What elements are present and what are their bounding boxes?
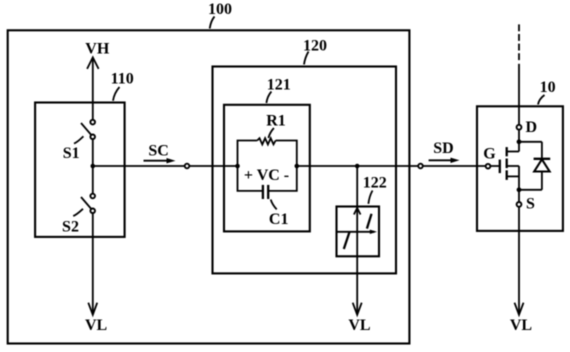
node junction 122: [355, 164, 360, 169]
wire junction to VL: [356, 166, 358, 314]
node loop left: [235, 164, 240, 169]
resistor R1: [257, 138, 275, 144]
wire VH to S1: [92, 102, 94, 119]
svg-text:S1: S1: [63, 145, 80, 162]
node source: [517, 187, 522, 192]
svg-text:110: 110: [111, 70, 134, 87]
terminal G: [486, 164, 491, 169]
svg-text:C1: C1: [269, 211, 289, 228]
svg-text:122: 122: [363, 175, 387, 192]
terminal SC: [185, 164, 190, 169]
label 10: [538, 79, 556, 105]
terminal D: [517, 125, 522, 130]
driver block 122: [337, 207, 380, 257]
wire drain top: [518, 64, 520, 125]
switch block 110: [35, 103, 125, 237]
label 120: [303, 37, 327, 64]
svg-text:SC: SC: [148, 142, 168, 159]
VL arrow middle: [353, 303, 362, 315]
switch S2: [81, 194, 95, 213]
svg-text:10: 10: [540, 79, 556, 96]
label C1: [269, 200, 289, 229]
svg-text:S2: S2: [62, 219, 79, 236]
SC arrow: [144, 158, 176, 163]
node loop right: [295, 164, 300, 169]
svg-text:D: D: [526, 119, 538, 136]
transistor block 10: [477, 106, 563, 231]
label 100: [208, 1, 232, 29]
control block 120: [213, 67, 397, 274]
body diode D1: [519, 142, 550, 190]
label 121: [266, 77, 290, 104]
wire 121 to gate: [297, 165, 500, 167]
VH arrow: [87, 57, 99, 102]
svg-text:100: 100: [208, 1, 232, 18]
SD arrow: [429, 158, 460, 163]
y-axis arrowhead 122: [354, 208, 361, 215]
enclosure box 100: [8, 30, 410, 343]
label 122: [363, 175, 387, 204]
capacitor C1: [263, 185, 268, 199]
wire S to VL: [518, 190, 520, 314]
label R1: [266, 113, 286, 139]
curve high segment 122: [367, 214, 372, 229]
terminal SD: [418, 164, 423, 169]
RC block 121: [224, 105, 310, 232]
svg-text:+ VC -: + VC -: [244, 167, 289, 184]
svg-text:VL: VL: [348, 317, 370, 334]
svg-text:VH: VH: [85, 40, 110, 57]
wire S1 to S2: [92, 140, 94, 193]
x-axis 122: [337, 230, 378, 234]
dashed drain line: [518, 24, 520, 60]
VL arrow right: [515, 303, 524, 315]
RC loop wire: [238, 141, 297, 191]
curve low segment 122: [344, 232, 350, 249]
wire D to node: [518, 130, 520, 142]
wire S2 to VL: [92, 214, 94, 314]
node junction SC: [91, 164, 96, 169]
svg-text:VL: VL: [85, 317, 107, 334]
switch S1: [81, 120, 95, 139]
svg-text:R1: R1: [266, 113, 286, 130]
svg-text:121: 121: [267, 77, 291, 94]
svg-text:120: 120: [303, 37, 327, 54]
label 110: [111, 70, 134, 100]
node drain: [517, 139, 522, 144]
label S1: [63, 136, 84, 162]
svg-text:G: G: [483, 146, 496, 163]
svg-text:VL: VL: [510, 317, 532, 334]
VL arrow left: [88, 303, 97, 315]
terminal S: [517, 202, 522, 207]
label S2: [62, 209, 83, 236]
wire SC: [93, 165, 238, 167]
transistor Q1: [500, 142, 519, 190]
svg-text:SD: SD: [433, 140, 453, 157]
svg-text:S: S: [526, 196, 535, 213]
